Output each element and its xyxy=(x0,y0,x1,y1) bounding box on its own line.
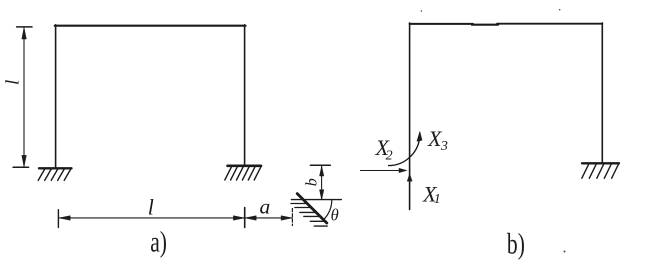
force X2 arrowhead xyxy=(399,168,407,172)
inclined support hatching xyxy=(291,204,327,227)
frame b fixed support line xyxy=(582,162,619,164)
svg-text:l: l xyxy=(3,80,24,85)
moment X3 curved arrow xyxy=(389,135,420,166)
inclined support line xyxy=(297,194,327,223)
dimension a line xyxy=(245,217,292,219)
left fixed support line (frame a) xyxy=(39,167,72,169)
svg-text:θ: θ xyxy=(331,206,339,225)
frame b fixed support hatching xyxy=(582,164,619,179)
dimension a right tick xyxy=(291,209,293,226)
left fixed support hatching (frame a) xyxy=(38,169,71,181)
vertical dimension bottom tick xyxy=(13,166,29,168)
svg-text:a: a xyxy=(260,194,271,218)
dimension a right arrowhead xyxy=(281,216,292,220)
bottom dimension right arrowhead (at middle tick) xyxy=(233,216,244,220)
scan speck top 1 xyxy=(421,10,423,12)
frame a right column xyxy=(244,25,246,166)
svg-text:b: b xyxy=(304,178,321,186)
frame a left column xyxy=(55,25,57,168)
scan speck top 2 xyxy=(559,9,561,11)
svg-text:3: 3 xyxy=(440,139,448,154)
svg-text:a): a) xyxy=(150,225,167,258)
small dot speck xyxy=(564,251,566,253)
frame b right column xyxy=(601,23,603,163)
bottom dimension middle tick xyxy=(244,208,246,228)
right fixed support line (frame a) xyxy=(228,165,262,168)
dimension b down arrowhead xyxy=(320,190,324,200)
svg-text:2: 2 xyxy=(386,149,393,164)
vertical dimension down arrowhead xyxy=(22,155,26,166)
bottom dimension left tick xyxy=(57,210,59,228)
angle theta arc xyxy=(323,200,331,220)
svg-text:l: l xyxy=(148,194,154,219)
svg-text:b): b) xyxy=(507,227,525,260)
dimension a left arrowhead xyxy=(245,216,256,220)
svg-text:1: 1 xyxy=(434,192,441,207)
inclined support horizontal reference line xyxy=(292,199,342,201)
frame a top beam xyxy=(55,25,246,27)
bottom dimension line l xyxy=(59,217,245,219)
dimension b top tick xyxy=(310,164,330,166)
moment X3 arrowhead xyxy=(417,132,422,142)
right fixed support hatching (frame a) xyxy=(225,166,261,180)
frame b top beam xyxy=(410,23,473,25)
bottom dimension left arrowhead xyxy=(59,216,70,220)
frame b left column with X1 shaft xyxy=(409,23,411,210)
dimension b line xyxy=(321,166,323,199)
force X1 arrowhead xyxy=(407,174,412,181)
force X2 arrow line xyxy=(360,170,400,172)
vertical dimension up arrowhead xyxy=(22,28,26,39)
vertical dimension top tick xyxy=(17,26,32,28)
dimension b up arrowhead xyxy=(320,166,324,176)
vertical dimension line l xyxy=(23,28,25,166)
